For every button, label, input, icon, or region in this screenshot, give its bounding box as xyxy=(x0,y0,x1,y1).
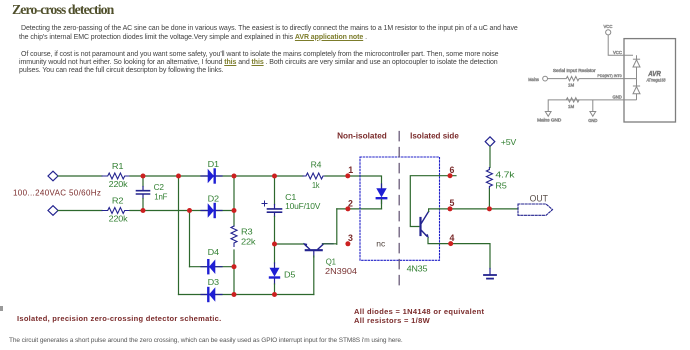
svg-text:VCC: VCC xyxy=(604,24,613,29)
paragraph 2 line 3 xyxy=(19,67,223,74)
wire phototransistor collector to pin5 xyxy=(429,209,450,212)
svg-text:D5: D5 xyxy=(284,270,296,280)
diode D3 (pointing left) xyxy=(201,277,222,301)
wire rowA R1 to pin1 xyxy=(130,175,303,177)
svg-text:PD2(INT) INT0: PD2(INT) INT0 xyxy=(597,73,622,78)
svg-text:220k: 220k xyxy=(109,179,129,189)
input terminal top (diamond) xyxy=(48,171,58,181)
svg-text:100...240VAC 50/60Hz: 100...240VAC 50/60Hz xyxy=(13,189,101,198)
svg-text:2N3904: 2N3904 xyxy=(325,266,357,276)
svg-text:Q1: Q1 xyxy=(326,256,336,266)
ground symbol xyxy=(484,269,496,279)
wire D4 row xyxy=(190,266,235,268)
svg-text:VCC: VCC xyxy=(613,50,622,55)
wire to GND arrow xyxy=(592,100,594,112)
diode D4 (pointing left) xyxy=(201,247,222,273)
svg-text:Isolated side: Isolated side xyxy=(410,131,459,141)
wire pin4 to ground xyxy=(451,244,490,269)
wire rowB diamond to R2 xyxy=(58,210,102,212)
svg-text:R5: R5 xyxy=(495,181,507,191)
paragraph 2 line 1 xyxy=(21,51,499,58)
GND wire xyxy=(548,100,636,112)
svg-text:1M: 1M xyxy=(568,83,574,88)
wire rowA diamond to R1 xyxy=(58,175,102,177)
wire R5 to pin5 row xyxy=(488,189,490,209)
resistor 1M (serial) xyxy=(548,76,637,87)
svg-text:AVR: AVR xyxy=(647,71,660,78)
protection diode top xyxy=(633,55,640,78)
svg-text:10uF/10V: 10uF/10V xyxy=(285,201,321,211)
wire C1 junction to Q1 emitter xyxy=(275,243,304,245)
wire phototransistor emitter to pin4 xyxy=(428,238,451,244)
wire +5V to R5 xyxy=(489,146,491,167)
resistor R2 xyxy=(102,196,130,224)
bottom paragraph xyxy=(9,337,403,344)
svg-text:Serial Input Resistor: Serial Input Resistor xyxy=(553,68,596,73)
svg-text:ATmega163: ATmega163 xyxy=(646,78,666,83)
junction dots xyxy=(141,173,492,297)
svg-text:Non-isolated: Non-isolated xyxy=(337,131,387,141)
svg-text:C2: C2 xyxy=(154,182,165,192)
resistor R1 xyxy=(102,161,130,189)
Mains terminal xyxy=(528,76,547,82)
wire rowA R4 to pin 1 of opto xyxy=(325,175,348,177)
svg-text:1nF: 1nF xyxy=(154,192,167,202)
wire bottom row xyxy=(179,294,314,296)
wire Q1 collector to pin2 xyxy=(323,209,337,244)
optocoupler U1 dashed box xyxy=(360,157,440,273)
svg-text:1k: 1k xyxy=(312,180,320,190)
svg-text:+5V: +5V xyxy=(501,137,517,147)
GND symbol xyxy=(588,112,597,123)
wire rowB R2 to R3 top node xyxy=(130,210,234,212)
paragraph 2 line 2 xyxy=(19,59,498,66)
wire pin6 to phototransistor base xyxy=(410,176,456,227)
resistor R4 xyxy=(303,160,326,191)
svg-text:GND: GND xyxy=(613,95,622,100)
opto phototransistor xyxy=(421,212,429,239)
OUT port flag xyxy=(518,194,553,216)
svg-text:R2: R2 xyxy=(112,196,124,206)
note: all diodes xyxy=(354,307,484,316)
VCC terminal circle xyxy=(604,24,613,35)
wire VCC to AVR xyxy=(608,35,633,55)
wire vertical rowB to D4 row xyxy=(189,211,191,267)
+5V supply diamond xyxy=(485,137,517,147)
svg-text:D4: D4 xyxy=(208,247,220,257)
svg-text:R3: R3 xyxy=(241,227,253,237)
wire Q1 base to bottom row xyxy=(313,256,315,295)
paragraph 1 line 2 xyxy=(19,34,367,41)
svg-text:OUT: OUT xyxy=(530,194,549,204)
svg-text:nc: nc xyxy=(376,239,386,249)
transistor Q1 xyxy=(303,243,357,276)
svg-text:R1: R1 xyxy=(112,161,124,171)
wire vertical rowA to bottom row (left) xyxy=(178,176,180,295)
svg-text:Mains GND: Mains GND xyxy=(537,118,561,123)
wire pin1 to LED top xyxy=(348,176,382,188)
diode D1 xyxy=(201,159,222,183)
opto LED diode xyxy=(377,184,386,209)
diode D2 xyxy=(201,193,222,217)
svg-text:D2: D2 xyxy=(208,193,220,203)
svg-text:1M: 1M xyxy=(568,104,574,109)
isolation divider (dashed) xyxy=(398,132,400,292)
resistor R5 (vertical) xyxy=(486,168,515,191)
resistor R3 (vertical) xyxy=(231,176,256,295)
note: all resistors xyxy=(354,316,430,325)
svg-text:GND: GND xyxy=(588,118,597,123)
wire pin5 to OUT xyxy=(450,208,518,210)
svg-text:22k: 22k xyxy=(241,237,256,247)
resistor 1M (gnd) xyxy=(566,98,579,109)
page title xyxy=(12,2,113,18)
AVR IC U2 box xyxy=(624,39,676,122)
SCHEMATIC_MAIN xyxy=(528,24,675,123)
diode D5 (pointing down) xyxy=(270,244,296,295)
svg-text:220k: 220k xyxy=(109,213,129,223)
capacitor C2 xyxy=(137,176,168,211)
caption: schematic title xyxy=(17,314,221,323)
svg-text:Mains: Mains xyxy=(528,77,539,82)
svg-text:4N35: 4N35 xyxy=(407,263,428,273)
svg-text:D1: D1 xyxy=(208,159,220,169)
wire pin2 row into opto LED xyxy=(337,208,382,210)
svg-text:D3: D3 xyxy=(208,277,220,287)
svg-text:R4: R4 xyxy=(311,160,322,170)
stray mark left edge xyxy=(0,306,3,311)
svg-text:4.7k: 4.7k xyxy=(495,169,515,179)
paragraph 1 line 1 xyxy=(21,25,518,32)
capacitor C1 xyxy=(262,176,321,244)
protection diode bottom xyxy=(633,79,640,100)
input terminal bottom (diamond) xyxy=(48,206,58,216)
Mains GND symbol xyxy=(537,112,561,123)
